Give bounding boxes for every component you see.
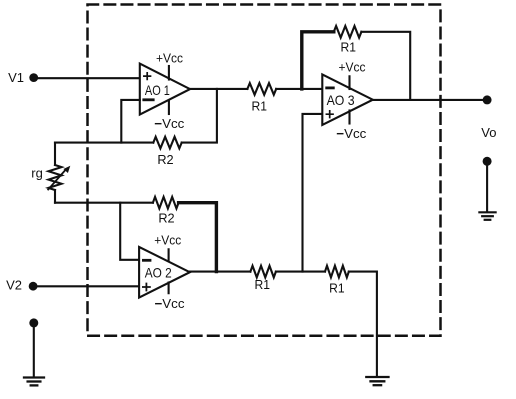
wire V2 to AO2 non-inverting input xyxy=(33,285,139,287)
ground (right, below Vo) xyxy=(479,212,495,220)
terminal V2 xyxy=(29,282,38,291)
wire junction up to AO3 non-inverting input xyxy=(303,114,323,272)
svg-text:R1: R1 xyxy=(251,98,267,113)
terminal Vo xyxy=(483,95,492,104)
wire AO1 inverting input to feedback node xyxy=(121,100,140,143)
op-amp U3 (AO 3) xyxy=(322,74,373,125)
wire AO3 output to Vo xyxy=(373,99,487,101)
power pin -Vcc of AO2 xyxy=(168,283,170,294)
wire AO3 feedback left side (bold) xyxy=(302,32,334,89)
wire R2 to AO2 output junction (bold) xyxy=(179,203,217,272)
svg-text:−Vcc: −Vcc xyxy=(154,116,185,131)
power pin -Vcc of AO3 xyxy=(348,111,350,124)
wire R1 to bottom ground xyxy=(349,272,377,377)
resistor R1 (AO1 output to AO3) xyxy=(247,83,276,95)
wire AO1 output to R1 xyxy=(190,88,247,90)
wire R2 to AO1 output junction xyxy=(182,89,217,143)
resistor R1 (AO3 feedback) xyxy=(334,26,362,38)
ground (bottom) xyxy=(366,377,388,385)
svg-text:rg: rg xyxy=(31,166,43,181)
svg-text:V1: V1 xyxy=(8,70,24,85)
wire rg to R2 (AO2 feedback, y=202.7) xyxy=(55,202,153,204)
power pin +Vcc of AO2 xyxy=(168,249,170,260)
variable resistor rg xyxy=(48,165,70,190)
svg-text:Vo: Vo xyxy=(481,125,496,140)
svg-text:R1: R1 xyxy=(329,281,345,296)
svg-text:R1: R1 xyxy=(341,40,357,55)
svg-text:+Vcc: +Vcc xyxy=(156,51,183,66)
svg-text:AO 3: AO 3 xyxy=(327,92,355,108)
resistor R1 (to ground) xyxy=(325,266,349,278)
power pin -Vcc of AO1 xyxy=(168,101,170,114)
wire rg top to feedback node xyxy=(54,143,56,165)
resistor R2 (AO1 feedback) xyxy=(153,137,181,149)
ground (left, below V2) xyxy=(24,378,44,386)
resistor R2 (AO2 feedback) xyxy=(153,197,179,209)
wire rg bottom to AO2 feedback node xyxy=(54,190,56,203)
wire R1 to AO3 inverting input xyxy=(276,88,322,90)
power pin +Vcc of AO3 xyxy=(348,76,350,89)
wire AO2 feedback node down to inverting input xyxy=(120,203,139,260)
svg-text:R1: R1 xyxy=(255,277,271,292)
wire V1 to AO1 non-inverting input xyxy=(34,77,140,79)
boundary dashed box xyxy=(88,5,441,336)
svg-text:AO 2: AO 2 xyxy=(145,265,172,281)
svg-text:R2: R2 xyxy=(158,210,174,225)
terminal V1 xyxy=(29,73,38,82)
svg-text:−Vcc: −Vcc xyxy=(336,126,367,141)
resistor R1 (AO2 output) xyxy=(250,266,275,278)
svg-text:+Vcc: +Vcc xyxy=(154,232,181,247)
wire V2 ground terminal down xyxy=(33,323,35,377)
wire Vo terminal to ground xyxy=(486,161,488,212)
node Vo ground terminal xyxy=(483,157,492,166)
node V2 ground terminal xyxy=(29,318,38,327)
svg-text:+Vcc: +Vcc xyxy=(339,60,366,75)
op-amp U1 (AO 1) xyxy=(140,64,190,115)
wire AO2 output to R1 xyxy=(190,271,251,273)
wire R1 feedback right side to output xyxy=(361,32,410,100)
svg-text:V2: V2 xyxy=(6,278,22,293)
wire feedback node to R2 (left segment, y=142.6) xyxy=(55,142,153,144)
svg-text:−Vcc: −Vcc xyxy=(155,296,186,311)
svg-text:R2: R2 xyxy=(157,152,173,167)
wire R1 to junction of AO3 non-inverting input xyxy=(276,271,325,273)
op-amp U2 (AO 2) xyxy=(139,247,190,298)
svg-text:AO 1: AO 1 xyxy=(145,82,170,98)
power pin +Vcc of AO1 xyxy=(168,66,170,80)
